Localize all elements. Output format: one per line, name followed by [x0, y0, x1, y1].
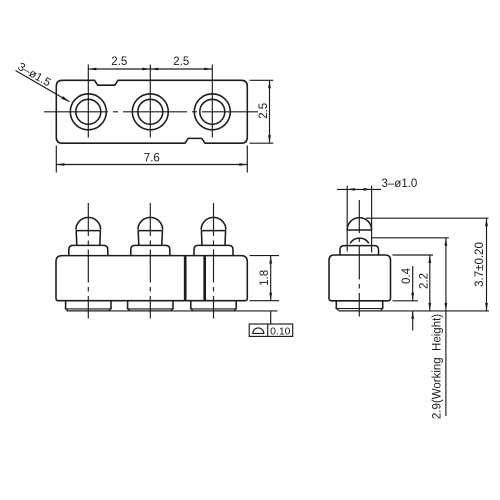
side dome [347, 218, 371, 230]
arrowhead 3.7 bottom [485, 303, 488, 311]
svg-text:3.7±0.20: 3.7±0.20 [474, 242, 486, 287]
3-o1.0 dimension line [337, 188, 381, 190]
2.5 height extension line top [250, 79, 274, 81]
pin 2 foot lip [128, 309, 173, 311]
top view horizontal centerline [44, 111, 258, 113]
pin 2 dome base line [138, 230, 163, 232]
arrowhead 2.2 bottom [428, 303, 431, 311]
side ball bottom arc [350, 238, 369, 243]
svg-text:2.9(Working Height): 2.9(Working Height) [432, 314, 444, 419]
svg-text:3–ø1.0: 3–ø1.0 [382, 178, 418, 190]
arrowhead o1.0 left [347, 188, 355, 191]
leader to feature control frame [270, 311, 272, 324]
hole 2 inner circle [138, 99, 163, 124]
feature control frame divider [267, 324, 269, 336]
arrowhead 2.2 top [428, 255, 431, 263]
1.8 dimension line [270, 256, 272, 301]
pin 1 dome [76, 217, 101, 229]
feature control frame box [249, 324, 293, 336]
svg-text:2.5: 2.5 [173, 56, 189, 68]
arrowhead 1.8 top [269, 256, 272, 264]
seating plane line front [67, 310, 278, 312]
side collar [340, 246, 379, 255]
arrowhead 7.6 left [56, 163, 64, 166]
arrowhead 2.9 bottom [445, 303, 448, 311]
arrowhead 7.6 right [239, 163, 247, 166]
2.9 dimension line [445, 238, 447, 416]
profile symbol [253, 328, 264, 333]
2.2 dimension line [429, 255, 431, 311]
hole 1 inner circle [76, 99, 101, 124]
arrowhead 2.5 height top [268, 80, 271, 88]
ball bottom extension line [372, 237, 449, 239]
arrowhead 2.5 height bottom [268, 135, 271, 143]
side housing body [329, 255, 391, 301]
seating plane line side [339, 310, 489, 312]
hole 3 inner circle [200, 99, 225, 124]
pin 2 dome [138, 217, 163, 229]
pin 2 foot side left [127, 301, 129, 309]
dimension 2.5 pitch line right [150, 68, 212, 70]
arrowhead 0.4 down [411, 293, 414, 301]
side dome base line [347, 229, 371, 231]
section slot line left [184, 256, 187, 300]
pin 1 neck right [99, 231, 102, 246]
pin 2 foot side right [172, 301, 174, 309]
3.7 dimension line [486, 218, 488, 311]
arrowhead 0.4 up [411, 311, 414, 319]
arrowhead 3.7 top [485, 218, 488, 226]
svg-text:2.5: 2.5 [258, 103, 270, 119]
7.6 extension line left [55, 146, 57, 173]
arrowhead leader 3-o1.5 [61, 96, 70, 103]
pin 1 centerline [87, 203, 89, 319]
pin 3 collar [194, 245, 233, 255]
arrowhead 2.9 top [445, 238, 448, 246]
hole 3 vertical centerline / extension [211, 65, 213, 138]
svg-text:0.4: 0.4 [401, 267, 413, 284]
hole 3 outer circle [194, 94, 230, 130]
svg-text:7.6: 7.6 [144, 153, 160, 165]
side centerline [358, 200, 360, 317]
pin 2 neck right [161, 231, 164, 246]
pin 2 [128, 217, 173, 311]
2.5 height dimension line [269, 80, 271, 143]
2.5 height extension line bottom [250, 142, 274, 144]
hole 2 vertical centerline / extension [149, 65, 151, 138]
o1.0 extension line left [346, 186, 348, 252]
arrowhead 2.5 right dim at hole2 [150, 68, 158, 71]
pin 3 dome [201, 217, 226, 229]
3-o1.5 leader line [16, 71, 70, 102]
svg-text:2.5: 2.5 [111, 56, 127, 68]
7.6 extension line right [246, 146, 248, 173]
pin 3 foot lip [191, 309, 236, 311]
arrowhead 2.5 right dim at hole3 [204, 68, 212, 71]
0.4 dimension line upper [412, 266, 414, 301]
side foot lip [336, 309, 382, 311]
pin 1 foot side right [110, 301, 112, 309]
pin 1 dome base line [76, 230, 101, 232]
arrowhead 2.5 left dim at hole1 [88, 68, 96, 71]
top view housing outline [56, 80, 247, 143]
body top extension line [393, 254, 434, 256]
pin 1 collar [69, 245, 108, 255]
pin 3 [191, 217, 236, 310]
hole 1 outer circle [70, 94, 106, 130]
pin 3 foot side left [190, 301, 192, 309]
side foot side left [335, 301, 337, 309]
svg-text:0.10: 0.10 [270, 325, 291, 337]
pin 3 neck left [200, 231, 203, 246]
1.8 extension line top [250, 255, 280, 257]
arrowhead 2.5 left dim at hole2 [142, 68, 150, 71]
1.8 extension line bottom [250, 300, 280, 302]
pin 3 foot side right [235, 301, 237, 309]
pin 2 centerline [149, 203, 151, 319]
0.4 dimension line lower [412, 311, 414, 331]
pin 3 dome base line [201, 230, 226, 232]
svg-text:1.8: 1.8 [259, 270, 271, 286]
pin 1 neck left [75, 231, 78, 246]
arrowhead o1.0 right [364, 188, 372, 191]
section slot line right [203, 256, 206, 300]
pin 3 neck right [224, 231, 227, 246]
side foot side right [382, 301, 384, 309]
pin 1 [66, 217, 111, 310]
pin 1 foot side left [65, 301, 67, 309]
hole 2 outer circle [132, 94, 168, 130]
arrowhead 1.8 bottom [269, 293, 272, 301]
7.6 dimension line [56, 164, 247, 166]
dome top extension line [366, 217, 489, 219]
pin 3 centerline [213, 203, 215, 319]
front housing body [56, 256, 247, 301]
body bottom extension line [393, 300, 419, 302]
pin 2 collar [131, 245, 170, 255]
o1.0 extension line right [371, 186, 373, 253]
dimension 2.5 pitch line left [88, 68, 150, 70]
svg-text:2.2: 2.2 [418, 273, 430, 289]
pin 2 neck left [137, 231, 140, 246]
hole 1 vertical centerline / extension [87, 65, 89, 138]
pin 1 foot lip [66, 309, 111, 311]
